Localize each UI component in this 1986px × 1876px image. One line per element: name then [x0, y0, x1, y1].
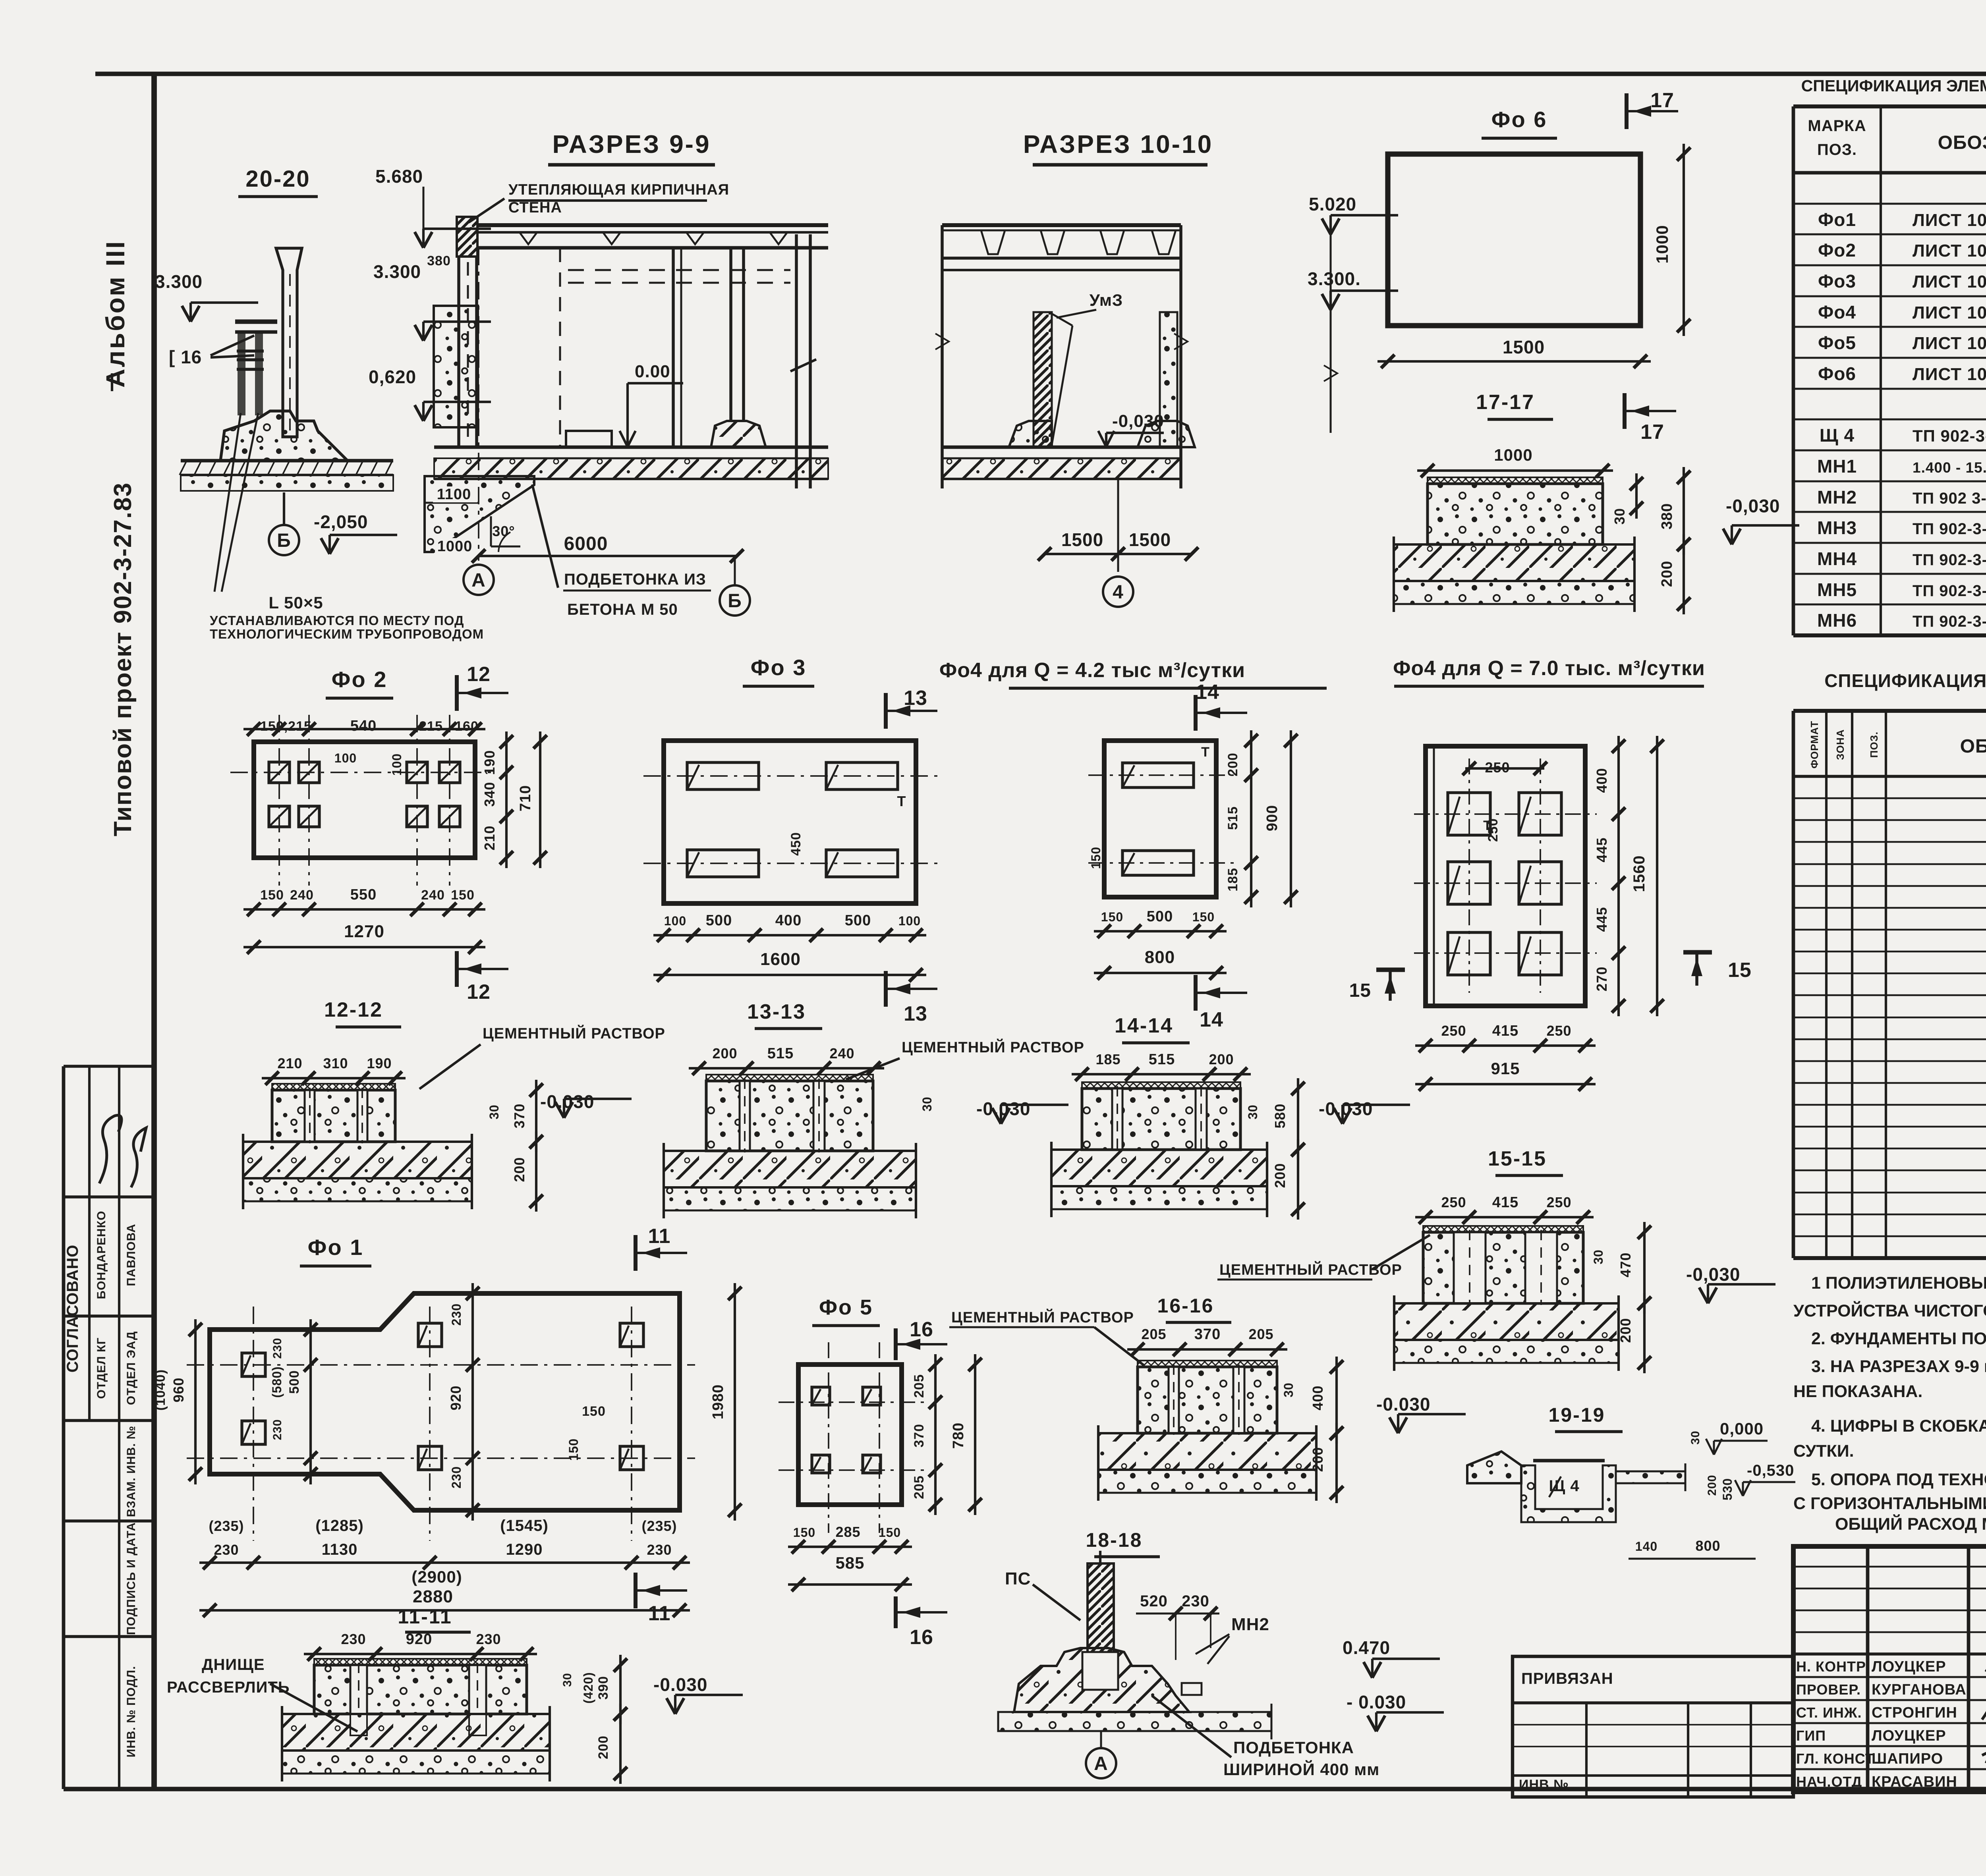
svg-text:250: 250 — [1546, 1194, 1571, 1210]
svg-text:Н. КОНТР: Н. КОНТР — [1796, 1658, 1866, 1675]
svg-text:Б: Б — [277, 530, 291, 551]
svg-text:Фо4: Фо4 — [1818, 302, 1856, 322]
svg-text:МН4: МН4 — [1817, 548, 1857, 569]
svg-text:400: 400 — [1594, 768, 1610, 793]
svg-text:СПЕЦИФИКАЦИЯ ЭЛЕМЕНТОВ МОНО: СПЕЦИФИКАЦИЯ ЭЛЕМЕНТОВ МОНОЛИТНОЙ КОНСТР… — [1824, 670, 1986, 691]
svg-text:800: 800 — [1145, 948, 1175, 967]
svg-text:230: 230 — [341, 1631, 366, 1647]
svg-text:ПОДПИСЬ И ДАТА: ПОДПИСЬ И ДАТА — [125, 1522, 138, 1635]
svg-text:ДНИЩЕ: ДНИЩЕ — [202, 1656, 265, 1673]
svg-text:205: 205 — [912, 1374, 927, 1398]
svg-text:ТП 902-3-27.83 - КЖИ. Щ,4: ТП 902-3-27.83 - КЖИ. Щ,4 — [1913, 427, 1986, 445]
svg-text:1.400 - 15.В1.430 - 01: 1.400 - 15.В1.430 - 01 — [1913, 459, 1986, 476]
svg-text:540: 540 — [350, 718, 377, 734]
svg-text:16: 16 — [910, 1318, 933, 1341]
svg-text:0.00: 0.00 — [635, 362, 670, 381]
svg-text:(420): (420) — [581, 1672, 595, 1704]
svg-text:(235): (235) — [209, 1518, 244, 1534]
svg-text:200: 200 — [1272, 1163, 1288, 1188]
svg-text:140: 140 — [1635, 1539, 1658, 1554]
svg-text:ВЗАМ. ИНВ. №: ВЗАМ. ИНВ. № — [125, 1426, 138, 1517]
svg-text:920: 920 — [448, 1385, 464, 1410]
svg-text:30: 30 — [1689, 1430, 1702, 1444]
svg-text:150: 150 — [451, 888, 475, 903]
svg-text:1500: 1500 — [1503, 337, 1545, 357]
svg-text:370: 370 — [912, 1424, 927, 1448]
svg-text:ЛИСТ 10: ЛИСТ 10 — [1913, 303, 1986, 322]
svg-text:185: 185 — [1225, 868, 1240, 892]
svg-text:МН5: МН5 — [1817, 579, 1857, 600]
svg-text:ЦЕМЕНТНЫЙ РАСТВОР: ЦЕМЕНТНЫЙ РАСТВОР — [902, 1038, 1084, 1056]
svg-text:12-12: 12-12 — [324, 998, 383, 1021]
svg-text:580: 580 — [1272, 1103, 1288, 1128]
svg-text:13-13: 13-13 — [747, 1000, 806, 1023]
svg-text:(1040): (1040) — [153, 1369, 168, 1411]
svg-text:150: 150 — [1192, 910, 1215, 924]
svg-text:17-17: 17-17 — [1476, 391, 1535, 414]
svg-text:310: 310 — [323, 1055, 348, 1071]
svg-text:11: 11 — [648, 1225, 671, 1248]
svg-text:А: А — [471, 570, 486, 591]
svg-text:ТП 902-3-27.83 - КЖИ. МН4: ТП 902-3-27.83 - КЖИ. МН4 — [1913, 551, 1986, 569]
svg-text:18-18: 18-18 — [1086, 1529, 1143, 1551]
svg-text:445: 445 — [1594, 837, 1610, 862]
svg-text:(580): (580) — [270, 1366, 284, 1398]
svg-text:(2900): (2900) — [411, 1567, 462, 1586]
svg-text:СОГЛАСОВАНО: СОГЛАСОВАНО — [64, 1245, 81, 1372]
svg-text:РАССВЕРЛИТЬ: РАССВЕРЛИТЬ — [167, 1679, 290, 1696]
svg-text:5.680: 5.680 — [375, 166, 423, 187]
svg-text:Фо3: Фо3 — [1818, 271, 1856, 291]
svg-text:-0.030: -0.030 — [976, 1098, 1030, 1119]
svg-text:МН3: МН3 — [1817, 517, 1857, 538]
svg-text:3.300.: 3.300. — [1308, 268, 1361, 289]
svg-text:ОБОЗНАЧЕНИЕ: ОБОЗНАЧЕНИЕ — [1960, 736, 1986, 757]
svg-text:710: 710 — [517, 785, 534, 811]
svg-text:ЛИСТ 10: ЛИСТ 10 — [1913, 210, 1986, 230]
svg-text:230: 230 — [271, 1419, 284, 1440]
svg-text:ШАПИРО: ШАПИРО — [1872, 1751, 1943, 1767]
svg-text:150,215: 150,215 — [260, 719, 312, 734]
svg-text:200: 200 — [511, 1157, 527, 1182]
svg-text:230: 230 — [476, 1631, 501, 1647]
svg-text:ЛИСТ 10: ЛИСТ 10 — [1913, 365, 1986, 384]
svg-text:-0.030: -0.030 — [540, 1091, 594, 1112]
svg-text:ЛОУЦКЕР: ЛОУЦКЕР — [1872, 1727, 1946, 1744]
svg-text:250: 250 — [1441, 1023, 1466, 1039]
svg-text:Фо4 для Q = 4.2 тыс м³/сутки: Фо4 для Q = 4.2 тыс м³/сутки — [939, 659, 1245, 682]
svg-text:200: 200 — [1617, 1318, 1634, 1343]
svg-text:КРАСАВИН: КРАСАВИН — [1872, 1774, 1957, 1790]
svg-text:Фо 3: Фо 3 — [751, 655, 807, 680]
svg-text:Фо 6: Фо 6 — [1491, 107, 1547, 132]
svg-text:200: 200 — [1706, 1475, 1719, 1496]
svg-text:12: 12 — [467, 980, 491, 1004]
svg-text:14: 14 — [1200, 1008, 1223, 1031]
svg-text:Щ 4: Щ 4 — [1549, 1477, 1579, 1495]
svg-text:100: 100 — [664, 914, 686, 928]
svg-text:200: 200 — [1209, 1051, 1234, 1067]
svg-text:30: 30 — [1611, 508, 1628, 525]
svg-text:1500: 1500 — [1129, 529, 1171, 550]
svg-text:С ГОРИЗОНТАЛЬНЫМИ БАЛКАМИ: С ГОРИЗОНТАЛЬНЫМИ БАЛКАМИ ИЗ L 50×5. — [1793, 1494, 1986, 1513]
svg-text:150: 150 — [1101, 910, 1123, 924]
svg-text:Фо6: Фо6 — [1818, 363, 1856, 384]
svg-text:ЛИСТ 10: ЛИСТ 10 — [1913, 272, 1986, 291]
svg-text:200: 200 — [1310, 1447, 1326, 1472]
svg-text:СТЕНА: СТЕНА — [508, 199, 562, 216]
svg-text:(1545): (1545) — [500, 1517, 549, 1534]
svg-text:445: 445 — [1594, 907, 1610, 932]
svg-text:230: 230 — [1182, 1592, 1209, 1610]
svg-text:L 50×5: L 50×5 — [269, 593, 323, 612]
svg-text:-0.030: -0.030 — [653, 1674, 707, 1695]
svg-text:16: 16 — [910, 1626, 933, 1649]
svg-text:1600: 1600 — [760, 950, 801, 969]
svg-text:ЛИСТ 10: ЛИСТ 10 — [1913, 241, 1986, 261]
svg-text:(235): (235) — [641, 1518, 677, 1534]
svg-text:СТ. ИНЖ.: СТ. ИНЖ. — [1796, 1704, 1862, 1721]
svg-text:240: 240 — [829, 1045, 854, 1062]
svg-text:ТП 902-3-27.83 - КЖИ. МН5: ТП 902-3-27.83 - КЖИ. МН5 — [1913, 582, 1986, 600]
svg-text:Фо2: Фо2 — [1818, 240, 1856, 261]
svg-text:ТП 902-3-27.83 - КЖИ. МН6: ТП 902-3-27.83 - КЖИ. МН6 — [1913, 613, 1986, 630]
svg-text:5. ОПОРА ПОД ТЕХНОЛОГИЧЕСКИЕ: 5. ОПОРА ПОД ТЕХНОЛОГИЧЕСКИЕ ТРУБОПРОВОД… — [1811, 1470, 1986, 1489]
svg-text:215: 215 — [419, 719, 443, 734]
svg-text:0.470: 0.470 — [1343, 1637, 1390, 1658]
svg-text:ТП 902 3-27.83 -КЖИ. МН2: ТП 902 3-27.83 -КЖИ. МН2 — [1913, 490, 1986, 507]
svg-text:230: 230 — [271, 1338, 284, 1359]
svg-text:ТП 902-3-27.83 - КЖИ. МН3: ТП 902-3-27.83 - КЖИ. МН3 — [1913, 520, 1986, 538]
svg-text:3.300: 3.300 — [373, 261, 421, 282]
svg-text:ЦЕМЕНТНЫЙ РАСТВОР: ЦЕМЕНТНЫЙ РАСТВОР — [951, 1308, 1134, 1326]
svg-text:Типовой проект 902-3-27.83: Типовой проект 902-3-27.83 — [109, 482, 137, 836]
svg-text:(1285): (1285) — [315, 1517, 364, 1534]
svg-text:-0.030: -0.030 — [1376, 1394, 1430, 1415]
svg-text:915: 915 — [1491, 1059, 1520, 1078]
svg-text:415: 415 — [1492, 1023, 1518, 1039]
svg-text:-0,530: -0,530 — [1747, 1462, 1794, 1479]
svg-text:415: 415 — [1492, 1194, 1518, 1211]
svg-text:КУРГАНОВА: КУРГАНОВА — [1872, 1681, 1967, 1698]
svg-text:РАЗРЕЗ 10-10: РАЗРЕЗ 10-10 — [1023, 130, 1213, 158]
svg-text:780: 780 — [950, 1422, 967, 1449]
svg-text:ПРИВЯЗАН: ПРИВЯЗАН — [1521, 1670, 1613, 1687]
svg-text:205: 205 — [1248, 1326, 1273, 1342]
svg-text:30: 30 — [1591, 1249, 1605, 1264]
svg-text:380: 380 — [1659, 503, 1675, 529]
svg-text:3. НА РАЗРЕЗАХ 9-9 и 10-10: 3. НА РАЗРЕЗАХ 9-9 и 10-10 УТЕПЛЯЮЩАЯ КИ… — [1811, 1357, 1986, 1376]
svg-text:370: 370 — [511, 1103, 527, 1128]
svg-text:16-16: 16-16 — [1157, 1295, 1214, 1317]
svg-text:ГИП: ГИП — [1796, 1727, 1826, 1744]
svg-text:1 ПОЛИЭТИЛЕНОВЫЕ ТРУБЫ ЗАЛО: 1 ПОЛИЭТИЛЕНОВЫЕ ТРУБЫ ЗАЛОЖИТЬ ПО ВЕРХУ… — [1811, 1274, 1986, 1293]
svg-text:370: 370 — [1194, 1326, 1221, 1343]
svg-text:ПС: ПС — [1005, 1569, 1031, 1588]
svg-text:150: 150 — [1089, 847, 1103, 869]
svg-text:520: 520 — [1140, 1592, 1168, 1610]
svg-text:4: 4 — [1113, 582, 1124, 603]
svg-text:НАЧ.ОТД: НАЧ.ОТД — [1796, 1774, 1862, 1790]
svg-text:МН2: МН2 — [1817, 487, 1857, 508]
svg-text:150: 150 — [260, 888, 284, 903]
svg-text:ЗОНА: ЗОНА — [1834, 729, 1846, 760]
svg-text:150: 150 — [879, 1525, 901, 1540]
svg-text:11-11: 11-11 — [398, 1606, 452, 1628]
svg-text:14: 14 — [1196, 681, 1219, 704]
svg-text:210: 210 — [277, 1055, 302, 1071]
svg-text:30: 30 — [1281, 1382, 1296, 1397]
svg-text:СТРОНГИН: СТРОНГИН — [1872, 1704, 1957, 1721]
svg-text:500: 500 — [706, 912, 732, 929]
svg-text:1560: 1560 — [1631, 855, 1648, 892]
svg-text:-0,030: -0,030 — [1726, 496, 1780, 516]
svg-text:1980: 1980 — [710, 1384, 726, 1420]
svg-text:30: 30 — [920, 1096, 934, 1112]
svg-text:Альбом III: Альбом III — [100, 240, 130, 388]
svg-text:МН6: МН6 — [1817, 610, 1857, 631]
svg-text:17: 17 — [1650, 89, 1674, 112]
svg-text:200: 200 — [596, 1735, 611, 1759]
svg-text:- 0.030: - 0.030 — [1347, 1692, 1406, 1712]
svg-text:1100: 1100 — [437, 486, 471, 503]
svg-text:185: 185 — [1095, 1051, 1121, 1067]
svg-text:4. ЦИФРЫ В СКОБКАХ ОТНОС: 4. ЦИФРЫ В СКОБКАХ ОТНОСЯТСЯ К ПРОИЗВОДИ… — [1811, 1417, 1986, 1436]
svg-text:210: 210 — [481, 825, 498, 850]
svg-text:500: 500 — [1147, 908, 1173, 925]
svg-text:ИНВ №: ИНВ № — [1519, 1777, 1569, 1792]
svg-text:Т: Т — [1201, 745, 1210, 760]
svg-text:-0,030: -0,030 — [1112, 411, 1164, 431]
svg-text:12: 12 — [467, 663, 491, 686]
svg-text:200: 200 — [1659, 561, 1675, 587]
svg-text:230: 230 — [214, 1542, 239, 1558]
svg-text:Фо5: Фо5 — [1818, 332, 1856, 353]
svg-text:ПОЗ.: ПОЗ. — [1817, 141, 1857, 158]
svg-text:14-14: 14-14 — [1115, 1014, 1173, 1037]
svg-text:585: 585 — [835, 1554, 864, 1572]
svg-text:205: 205 — [1141, 1326, 1166, 1342]
svg-text:100: 100 — [390, 753, 404, 776]
svg-text:БЕТОНА М 50: БЕТОНА М 50 — [567, 601, 678, 618]
svg-text:150: 150 — [793, 1525, 815, 1540]
svg-text:-0,030: -0,030 — [1686, 1264, 1740, 1285]
svg-text:1270: 1270 — [344, 922, 384, 941]
svg-text:УСТРОЙСТВА ЧИСТОГО ПОЛА. ВЫС: УСТРОЙСТВА ЧИСТОГО ПОЛА. ВЫСТУПАЮЩИЕ НАД… — [1793, 1301, 1986, 1320]
svg-text:1500: 1500 — [1061, 529, 1103, 550]
svg-text:200: 200 — [712, 1045, 737, 1062]
svg-text:550: 550 — [350, 886, 377, 903]
svg-text:230: 230 — [449, 1303, 464, 1326]
svg-text:190: 190 — [367, 1055, 392, 1071]
svg-text:470: 470 — [1617, 1252, 1634, 1277]
svg-text:НЕ ПОКАЗАНА.: НЕ ПОКАЗАНА. — [1793, 1382, 1922, 1401]
svg-text:5.020: 5.020 — [1309, 194, 1356, 214]
svg-text:Фо 2: Фо 2 — [332, 667, 388, 692]
svg-text:ОТДЕЛ КГ: ОТДЕЛ КГ — [95, 1338, 108, 1399]
svg-text:285: 285 — [835, 1524, 860, 1540]
svg-text:270: 270 — [1594, 966, 1610, 991]
svg-text:ФОРМАТ: ФОРМАТ — [1808, 721, 1820, 768]
svg-text:30: 30 — [1246, 1104, 1260, 1119]
svg-text:СПЕЦИФИКАЦИЯ ЭЛЕМЕНТОВ К СХЕМ: СПЕЦИФИКАЦИЯ ЭЛЕМЕНТОВ К СХЕМЕ РАСПОЛОЖЕ… — [1801, 77, 1986, 95]
svg-text:ЦЕМЕНТНЫЙ РАСТВОР: ЦЕМЕНТНЫЙ РАСТВОР — [483, 1024, 665, 1042]
svg-text:250: 250 — [1441, 1194, 1466, 1210]
svg-text:240: 240 — [290, 888, 314, 903]
svg-text:ПРОВЕР.: ПРОВЕР. — [1796, 1681, 1861, 1698]
svg-text:1130: 1130 — [322, 1541, 358, 1558]
svg-text:ЛИСТ 10: ЛИСТ 10 — [1913, 334, 1986, 353]
svg-text:500: 500 — [845, 912, 871, 929]
svg-text:250: 250 — [1486, 818, 1501, 842]
svg-text:ТЕХНОЛОГИЧЕСКИМ ТРУБОПРОВОДОМ: ТЕХНОЛОГИЧЕСКИМ ТРУБОПРОВОДОМ — [210, 627, 484, 641]
svg-text:ИНВ. № ПОДЛ.: ИНВ. № ПОДЛ. — [125, 1666, 138, 1758]
svg-text:15-15: 15-15 — [1488, 1147, 1547, 1170]
svg-text:230: 230 — [647, 1542, 672, 1558]
svg-text:Б: Б — [728, 591, 742, 612]
svg-text:ЦЕМЕНТНЫЙ РАСТВОР: ЦЕМЕНТНЫЙ РАСТВОР — [1219, 1260, 1402, 1278]
svg-text:30: 30 — [561, 1673, 574, 1687]
svg-text:100: 100 — [334, 751, 357, 765]
svg-text:1000: 1000 — [1653, 225, 1671, 263]
svg-text:19-19: 19-19 — [1549, 1404, 1605, 1426]
svg-text:1000: 1000 — [1494, 446, 1532, 464]
svg-text:А: А — [1094, 1753, 1108, 1774]
svg-text:Фо4 для Q = 7.0 тыс. м³/сут: Фо4 для Q = 7.0 тыс. м³/сутки — [1393, 657, 1705, 680]
svg-text:ПАВЛОВА: ПАВЛОВА — [125, 1224, 138, 1286]
svg-text:ПОДБЕТОНКА: ПОДБЕТОНКА — [1233, 1738, 1354, 1757]
svg-text:-2,050: -2,050 — [314, 511, 368, 532]
svg-text:15: 15 — [1728, 959, 1752, 982]
svg-text:УТЕПЛЯЮЩАЯ КИРПИЧНАЯ: УТЕПЛЯЮЩАЯ КИРПИЧНАЯ — [508, 181, 729, 198]
svg-text:1000: 1000 — [437, 538, 473, 555]
svg-text:2. ФУНДАМЕНТЫ ПОД ОБОРУДОВА: 2. ФУНДАМЕНТЫ ПОД ОБОРУДОВАНИЕ БЕТОНИРОВ… — [1811, 1329, 1986, 1348]
svg-text:340: 340 — [481, 782, 498, 807]
svg-text:1290: 1290 — [506, 1541, 543, 1558]
svg-text:800: 800 — [1695, 1538, 1720, 1554]
svg-text:ПОЗ.: ПОЗ. — [1868, 731, 1880, 758]
svg-text:190: 190 — [481, 750, 498, 775]
svg-text:ОБЩИЙ РАСХОД МЕТАЛЛА ДЛЯ: ОБЩИЙ РАСХОД МЕТАЛЛА ДЛЯ УСТРОЙСТВА ОПОР… — [1835, 1514, 1986, 1534]
svg-text:960: 960 — [170, 1377, 187, 1402]
svg-text:250: 250 — [1546, 1023, 1571, 1039]
svg-text:15: 15 — [1349, 980, 1371, 1001]
svg-text:ПОДБЕТОНКА ИЗ: ПОДБЕТОНКА ИЗ — [564, 571, 706, 588]
svg-text:УСТАНАВЛИВАЮТСЯ ПО МЕСТУ ПОД: УСТАНАВЛИВАЮТСЯ ПО МЕСТУ ПОД — [210, 613, 464, 628]
svg-text:13: 13 — [904, 1002, 927, 1025]
svg-text:20-20: 20-20 — [245, 166, 310, 192]
svg-text:Фо 5: Фо 5 — [819, 1295, 873, 1319]
svg-text:17: 17 — [1640, 421, 1664, 444]
svg-text:515: 515 — [1149, 1051, 1175, 1068]
svg-text:СУТКИ.: СУТКИ. — [1793, 1442, 1854, 1461]
svg-text:150: 150 — [582, 1404, 606, 1419]
svg-text:205: 205 — [912, 1475, 927, 1499]
svg-text:11: 11 — [648, 1602, 671, 1625]
svg-text:ШИРИНОЙ 400 мм: ШИРИНОЙ 400 мм — [1223, 1760, 1379, 1779]
svg-text:450: 450 — [788, 832, 804, 856]
svg-text:30: 30 — [487, 1104, 501, 1119]
svg-text:515: 515 — [1225, 806, 1240, 830]
svg-text:530: 530 — [1720, 1478, 1735, 1500]
svg-text:920: 920 — [406, 1631, 432, 1648]
svg-text:МН1: МН1 — [1817, 456, 1857, 477]
svg-text:13: 13 — [904, 687, 927, 710]
svg-text:[ 16: [ 16 — [169, 347, 202, 367]
svg-text:380: 380 — [427, 253, 451, 268]
svg-text:400: 400 — [775, 912, 802, 929]
svg-text:Фо 1: Фо 1 — [308, 1235, 364, 1260]
svg-text:0,000: 0,000 — [1720, 1419, 1764, 1438]
svg-text:Щ 4: Щ 4 — [1820, 425, 1855, 446]
svg-text:6000: 6000 — [564, 533, 608, 554]
svg-text:390: 390 — [596, 1676, 611, 1700]
svg-text:0,620: 0,620 — [369, 367, 416, 387]
svg-text:Т: Т — [897, 793, 906, 809]
svg-text:200: 200 — [1225, 753, 1240, 776]
svg-text:400: 400 — [1310, 1385, 1326, 1410]
svg-text:ОТДЕЛ ЭАД: ОТДЕЛ ЭАД — [125, 1331, 138, 1405]
svg-text:2880: 2880 — [413, 1587, 453, 1606]
svg-text:150: 150 — [566, 1438, 581, 1461]
svg-text:3.300: 3.300 — [155, 271, 203, 292]
svg-text:Фо1: Фо1 — [1818, 209, 1856, 230]
svg-text:515: 515 — [767, 1045, 794, 1062]
svg-text:900: 900 — [1264, 805, 1281, 831]
svg-text:240: 240 — [421, 888, 445, 903]
svg-text:БОНДАРЕНКО: БОНДАРЕНКО — [95, 1211, 108, 1299]
svg-text:230: 230 — [449, 1466, 464, 1488]
svg-text:УмЗ: УмЗ — [1090, 291, 1123, 309]
svg-text:ОБОЗНАЧЕНИЕ: ОБОЗНАЧЕНИЕ — [1938, 132, 1986, 153]
svg-text:ГЛ. КОНСТ: ГЛ. КОНСТ — [1796, 1751, 1874, 1767]
svg-text:МАРКА: МАРКА — [1808, 117, 1866, 135]
svg-text:ЛОУЦКЕР: ЛОУЦКЕР — [1872, 1658, 1946, 1675]
svg-text:МН2: МН2 — [1231, 1615, 1269, 1634]
svg-text:100: 100 — [898, 914, 921, 928]
svg-text:500: 500 — [287, 1370, 302, 1394]
svg-text:РАЗРЕЗ 9-9: РАЗРЕЗ 9-9 — [552, 130, 711, 158]
